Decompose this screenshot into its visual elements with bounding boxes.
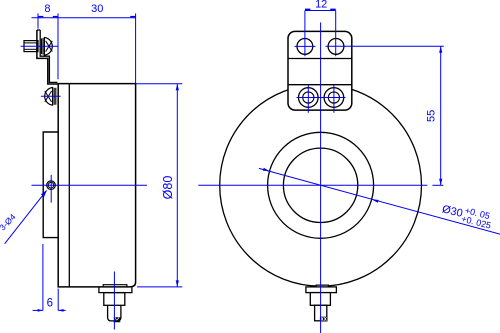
screw E1 [299, 88, 319, 108]
svg-text:Ø80: Ø80 [161, 176, 175, 200]
dim 12 [305, 0, 336, 11]
horizontal centerline right view [198, 184, 443, 186]
stem right view [306, 285, 337, 321]
block divider lower [288, 84, 352, 86]
dim 30 extension line [135, 13, 137, 83]
dim dia80 [136, 84, 183, 287]
dim 55 [426, 46, 443, 185]
svg-text:12: 12 [315, 0, 327, 11]
middle circle [268, 132, 374, 238]
leader 3-dia4 [0, 190, 47, 244]
stem left view [99, 285, 132, 322]
plate hole [47, 181, 56, 190]
terminal block [288, 31, 352, 110]
mounting bracket [37, 30, 58, 84]
dim 8 extension lines [37, 13, 39, 28]
screw E1/E2 centerlines [297, 85, 346, 113]
body seam line [68, 84, 70, 286]
bracket screw S1 [24, 38, 52, 56]
hole H1 centerlines [295, 10, 316, 56]
hole H2 centerlines [326, 10, 444, 56]
dim 6 [33, 244, 66, 312]
vertical centerline right view [320, 22, 322, 333]
svg-text:8: 8 [44, 3, 50, 15]
svg-text:55: 55 [426, 110, 438, 122]
block divider upper [288, 58, 352, 60]
svg-text:6: 6 [47, 297, 53, 309]
side plate [43, 132, 58, 238]
block hole H1 [297, 39, 313, 55]
dim 8 and dim 30 line [32, 17, 136, 18]
block hole H2 [328, 39, 344, 55]
stem centerline left view [113, 272, 115, 330]
screw S2 centerline [41, 95, 61, 97]
bore circle dia30 [283, 148, 357, 222]
screw E2 [324, 88, 344, 108]
plate hole centerline [50, 175, 52, 203]
terminal screw S2 [45, 88, 56, 106]
svg-text:30: 30 [91, 3, 103, 15]
centerline left view [32, 184, 148, 186]
screw S1 centerline [21, 45, 58, 47]
outer circle dia80 [220, 84, 422, 286]
body outline left view [57, 84, 135, 287]
dim dia30 diagonal [259, 168, 500, 234]
